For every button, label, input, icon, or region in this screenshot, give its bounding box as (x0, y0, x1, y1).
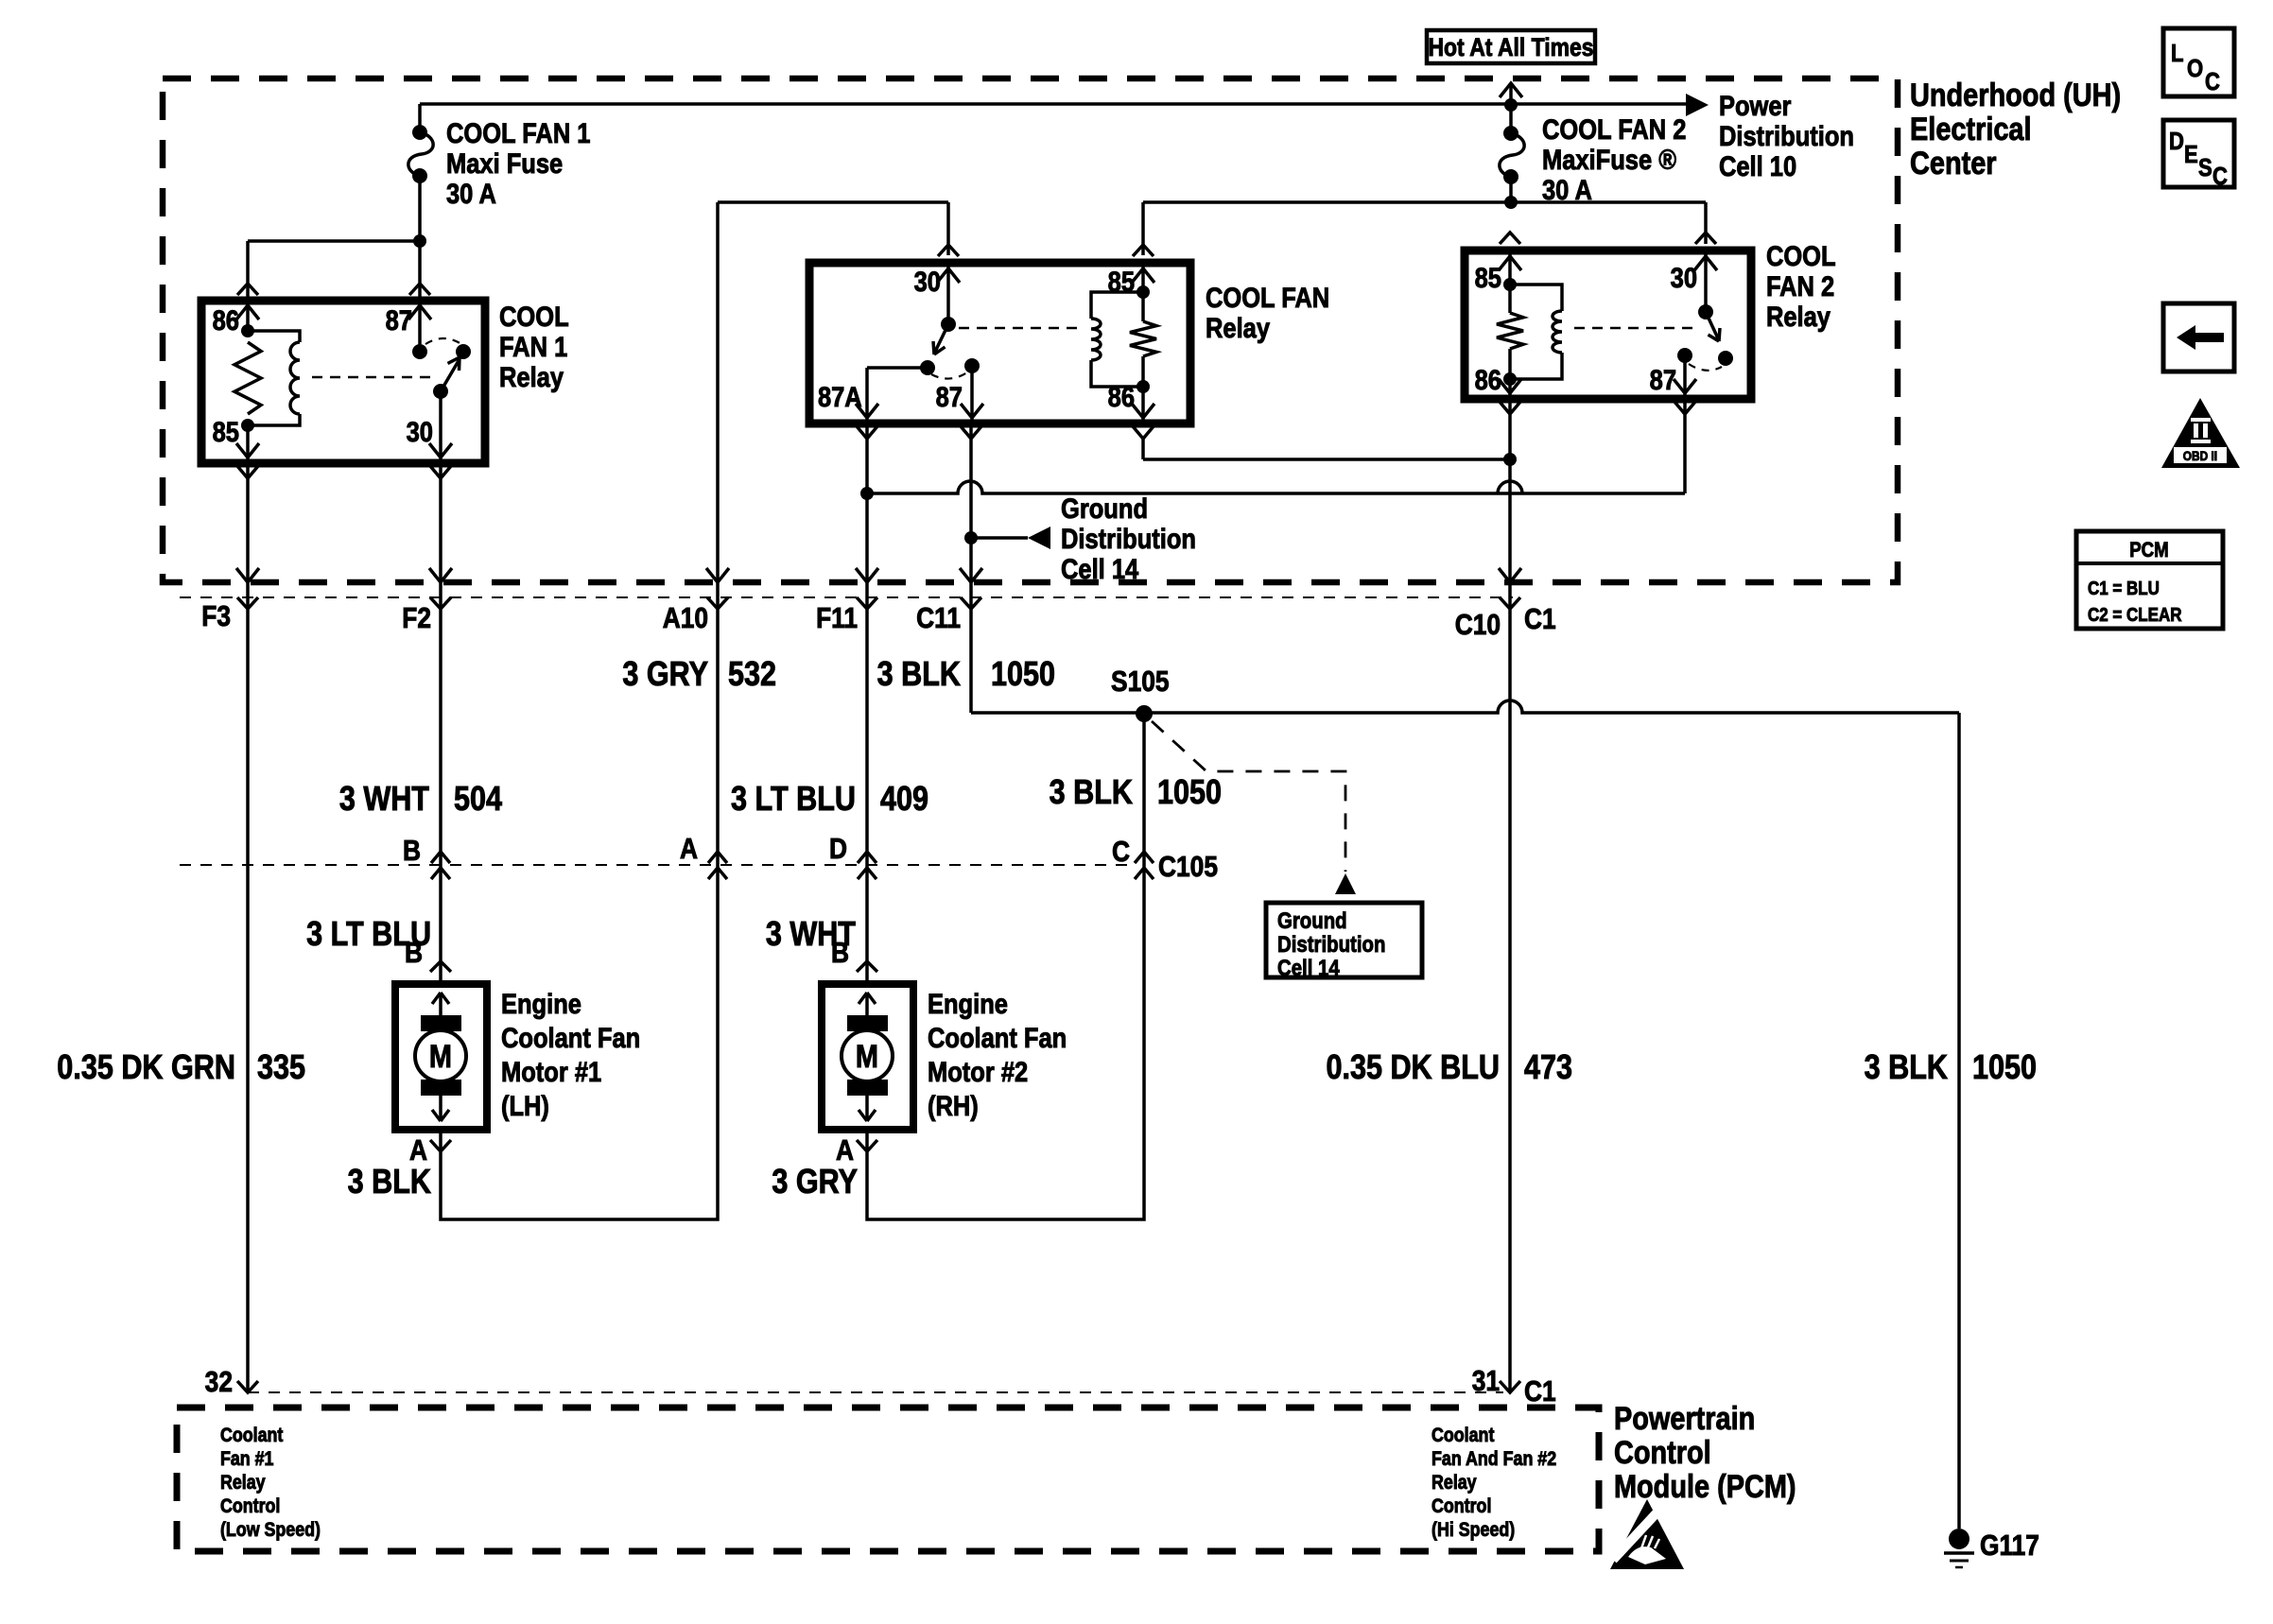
svg-text:Coolant Fan: Coolant Fan (501, 1022, 640, 1053)
svg-text:S105: S105 (1111, 665, 1170, 698)
svg-text:504: 504 (454, 781, 502, 819)
svg-text:(Hi Speed): (Hi Speed) (1431, 1519, 1515, 1542)
PCM pin 31 chevron (1500, 1381, 1520, 1392)
PCM C1 label bottom (1524, 1375, 1556, 1408)
arrow exit UH box at F3 (236, 568, 259, 582)
svg-text:Module (PCM): Module (PCM) (1614, 1468, 1796, 1505)
relay1 pin 87 stationary contact (412, 301, 427, 359)
ESD sensitive device symbol (1610, 1499, 1684, 1569)
connector pin F3 label (201, 600, 231, 632)
relay2m pin direction arrows (856, 268, 1154, 418)
svg-text:3 LT BLU: 3 LT BLU (731, 781, 856, 819)
PCM pin 32 chevron (237, 1381, 258, 1392)
wire - relay2m 87A wire down to F11 (865, 423, 869, 582)
svg-text:A10: A10 (663, 602, 708, 634)
relay3 pin 87 exit chevron (1674, 402, 1695, 414)
motor M1 pin A chevron and label (409, 1130, 451, 1167)
svg-text:Center: Center (1910, 145, 1997, 181)
svg-text:D: D (2169, 128, 2184, 155)
svg-text:COOL: COOL (499, 301, 569, 332)
C105 pin A label (680, 833, 698, 865)
wire label 3 BLK below motor1 (348, 1164, 431, 1201)
relay1 pin 85 direction arrow (236, 443, 259, 458)
junction node fuse1 output (413, 234, 426, 248)
svg-text:Relay: Relay (1766, 301, 1831, 332)
motor M2 pin A chevron and label (836, 1130, 877, 1167)
relay1 pin 85 label (213, 416, 239, 447)
svg-text:Coolant: Coolant (1431, 1425, 1495, 1447)
svg-text:Ground: Ground (1061, 492, 1148, 524)
svg-text:Distribution: Distribution (1719, 120, 1854, 151)
relay3 pin 85 entry chevron (1500, 233, 1520, 244)
relay1 pin 87 label (386, 304, 412, 336)
svg-text:COOL FAN 1: COOL FAN 1 (446, 117, 590, 148)
svg-text:Control: Control (1614, 1434, 1711, 1471)
wire - relay3 pin87 across to relay2m pin87A node with hops (867, 399, 1685, 493)
relay3 pin direction arrows (1499, 256, 1717, 393)
fuse - COOL FAN 1 Maxi Fuse 30 A (408, 125, 433, 183)
wire - A10 wire down and across to motor1 return (441, 202, 718, 1219)
junction node on C10 wire at pin86 feed (1503, 453, 1517, 466)
wire - relay middle pin86 to C10 node (1143, 439, 1510, 459)
svg-text:Cell 14: Cell 14 (1277, 955, 1340, 980)
wire - relay1 pin30 to switch arm (439, 391, 442, 463)
svg-text:Engine: Engine (501, 988, 581, 1019)
wire label 0.35 DK GRN 335 (57, 1049, 305, 1087)
arrow exit UH box at F2 (429, 568, 452, 582)
COOL FAN Relay label (1206, 282, 1329, 343)
relay K3 - COOL FAN 2 Relay box (1465, 251, 1751, 399)
relay3 pin 30 wire and pivot (1698, 251, 1713, 320)
svg-text:F2: F2 (402, 602, 431, 634)
connector pin F11 label (816, 602, 858, 634)
svg-text:32: 32 (205, 1366, 233, 1398)
svg-text:3 BLK: 3 BLK (348, 1164, 431, 1201)
Power Distribution Cell 10 label (1719, 90, 1854, 181)
svg-text:86: 86 (1475, 364, 1501, 395)
svg-text:B: B (403, 835, 421, 867)
svg-text:30 A: 30 A (446, 178, 496, 209)
svg-text:3 BLK: 3 BLK (1865, 1049, 1948, 1087)
wire - right 3 BLK 1050 drop to G117 (1957, 713, 1961, 1529)
connector chevron C11 (961, 597, 981, 609)
svg-text:Control: Control (220, 1495, 280, 1518)
svg-text:0.35 DK BLU: 0.35 DK BLU (1326, 1049, 1500, 1087)
relay3 pin 30 label (1671, 262, 1697, 293)
relay1 pin 85 exit chevron (237, 466, 258, 478)
svg-text:L: L (2171, 40, 2183, 67)
svg-text:Electrical: Electrical (1910, 111, 2032, 147)
relay3 switch arm with arrowhead (1706, 312, 1720, 341)
C105 pin B label (403, 835, 421, 867)
svg-text:473: 473 (1524, 1049, 1572, 1087)
wire - main B+ feed bus from COOL FAN 1 fuse node to Power Distribution (420, 104, 1690, 132)
resistor - relay3 suppression resistor (1497, 285, 1523, 379)
relay K1 - COOL FAN 1 Relay box (201, 301, 485, 463)
relay3 pin 86 label (1475, 364, 1501, 395)
svg-text:C11: C11 (916, 602, 961, 634)
wire - F11 wire down to motor2 (865, 582, 869, 967)
svg-text:C10: C10 (1455, 609, 1501, 641)
svg-text:PCM: PCM (2129, 540, 2169, 562)
relay1 pin 30 exit chevron (430, 466, 451, 478)
svg-text:409: 409 (880, 781, 928, 819)
COOL FAN 2 Relay label (1766, 240, 1836, 332)
svg-text:COOL FAN 2: COOL FAN 2 (1542, 113, 1686, 145)
wire - F3 wire relay1 pin85 down to PCM pin 32 (246, 463, 250, 1392)
svg-text:Distribution: Distribution (1061, 523, 1196, 554)
relay2m coil top node (1136, 263, 1150, 299)
Engine Coolant Fan Motor #2 label (928, 988, 1067, 1121)
ground distribution reference arrow at C11 wire (964, 527, 1050, 549)
svg-text:335: 335 (257, 1049, 305, 1087)
svg-text:B: B (831, 937, 849, 969)
wire - junction to relay1 pin 86 branch (248, 241, 420, 301)
svg-text:A: A (409, 1134, 427, 1166)
svg-text:C: C (1112, 836, 1130, 868)
ground G117 symbol (1944, 1529, 1974, 1567)
wire - relay2m 87 wire down to C11 (969, 423, 973, 582)
relay2m switch arm with arrowhead (933, 324, 948, 354)
svg-text:1050: 1050 (1972, 1049, 2037, 1087)
resistor - relay1 coil suppression resistor (234, 342, 261, 414)
connector chevron F3 (237, 597, 258, 609)
junction node S105 splice (1136, 705, 1153, 722)
junction node on B+ bus at COOL FAN 2 fuse (1504, 98, 1518, 112)
svg-text:C1: C1 (1524, 1375, 1556, 1408)
svg-text:0.35 DK GRN: 0.35 DK GRN (57, 1049, 235, 1087)
svg-text:87A: 87A (818, 381, 862, 412)
relay2m pin 30 label (914, 266, 941, 297)
PCM pin 31 label (1472, 1365, 1500, 1397)
relay2m pin 30 wire and pivot (941, 263, 956, 332)
svg-text:1050: 1050 (991, 656, 1055, 694)
relay3 pin 87 label (1650, 364, 1676, 395)
svg-text:1050: 1050 (1157, 774, 1222, 812)
relay3 open contact (1718, 351, 1733, 366)
svg-text:F3: F3 (201, 600, 231, 632)
wire - F2 wire relay1 pin30 down to motor1 (439, 463, 442, 967)
svg-text:Powertrain: Powertrain (1614, 1400, 1755, 1437)
svg-text:3 GRY: 3 GRY (772, 1164, 858, 1201)
svg-text:(Low Speed): (Low Speed) (220, 1519, 321, 1542)
C105 pin C double chevron (1135, 852, 1154, 879)
svg-text:30: 30 (1671, 262, 1697, 293)
relay1 actuation dashed link (312, 376, 435, 379)
svg-text:A: A (836, 1134, 854, 1166)
wire - fuse 2 output to bus at y214 (1509, 176, 1513, 202)
svg-text:E: E (2184, 141, 2198, 168)
Hot At All Times power label box (1427, 30, 1595, 63)
svg-text:Maxi Fuse: Maxi Fuse (446, 147, 563, 179)
svg-text:3 WHT: 3 WHT (339, 781, 430, 819)
wire - fuse 1 output to relay 1 junction (418, 176, 422, 241)
svg-text:FAN 2: FAN 2 (1766, 270, 1834, 302)
G117 label (1980, 1529, 2039, 1562)
wire label 3 GRY below motor2 (772, 1164, 858, 1201)
svg-text:Distribution: Distribution (1277, 931, 1385, 957)
wire label 3 BLK 1050 at S105 (1050, 774, 1222, 812)
svg-text:Power: Power (1719, 90, 1792, 121)
relay1 pin 87 direction arrow (408, 305, 431, 320)
COOL FAN 2 MaxiFuse label (1542, 113, 1686, 205)
relay2m pin 87A label (818, 381, 862, 412)
relay1 pin 86 direction arrow (236, 305, 259, 320)
svg-text:Fan #1: Fan #1 (220, 1448, 274, 1471)
relay3 coil bottom node (1503, 372, 1517, 399)
svg-text:3 BLK: 3 BLK (877, 656, 961, 694)
svg-text:87: 87 (936, 381, 963, 412)
COOL FAN 1 Maxi Fuse label (446, 117, 590, 209)
relay2m pin 85 entry chevron (1133, 245, 1154, 256)
Underhood (UH) Electrical Center dashed boundary box (163, 78, 1898, 582)
relay1 pin 30 direction arrow (429, 443, 452, 458)
relay2m pin 85 label (1108, 266, 1135, 297)
relay2m pin 87 exit chevron (961, 426, 981, 439)
relay1 pin 86 label (213, 304, 239, 336)
svg-text:Relay: Relay (499, 361, 564, 392)
svg-text:Relay: Relay (1206, 312, 1270, 343)
junction node relay pin87A wire (860, 487, 874, 500)
svg-text:85: 85 (1475, 262, 1501, 293)
LOC reference icon box (2163, 28, 2234, 96)
C105 pin A double chevron (708, 852, 727, 879)
svg-text:Motor #2: Motor #2 (928, 1056, 1028, 1087)
wire label 3 LT BLU 409 (731, 781, 928, 819)
arrow to Power Distribution Cell 10 (1686, 94, 1709, 116)
arrow exit UH box at A10 (706, 568, 729, 582)
svg-text:B: B (405, 937, 423, 969)
relay3 pin 30 entry chevron (1695, 233, 1716, 244)
relay1 coil top node (241, 301, 254, 337)
svg-text:Coolant Fan: Coolant Fan (928, 1022, 1067, 1053)
svg-text:FAN 1: FAN 1 (499, 331, 567, 362)
C105 pin D double chevron (858, 852, 876, 879)
arrow exit UH box at C10 (1499, 568, 1521, 582)
svg-text:Relay: Relay (1431, 1472, 1477, 1494)
Powertrain Control Module (PCM) label (1614, 1400, 1796, 1505)
relay3 contact travel dashed arc (1689, 364, 1722, 371)
inductor - relay1 coil winding loop (248, 331, 300, 425)
relay2m pin 86 exit chevron (1133, 426, 1154, 439)
svg-text:30: 30 (407, 416, 433, 447)
relay2m pin 87A contact and wire (867, 360, 935, 423)
wire label 3 LT BLU below C105 (306, 916, 431, 954)
relay3 coil top node (1503, 251, 1517, 291)
wire label 3 WHT 504 (339, 781, 503, 819)
fuse - COOL FAN 2 MaxiFuse 30 A (1500, 105, 1524, 184)
relay1 open contact (456, 344, 471, 359)
svg-text:C105: C105 (1158, 851, 1218, 883)
Ground Distribution Cell 14 reference box (1266, 903, 1422, 980)
connector chevron A10 (707, 597, 728, 609)
relay2m contact travel dashed arc (931, 372, 967, 379)
relay3 actuation dashed link (1574, 327, 1696, 330)
svg-text:Hot At All Times: Hot At All Times (1428, 33, 1593, 61)
inductor - relay middle coil winding (1091, 292, 1143, 387)
svg-text:C2 = CLEAR: C2 = CLEAR (2088, 604, 2182, 626)
svg-text:A: A (680, 833, 698, 865)
arrow exit UH box at C11 (960, 568, 982, 582)
DESC reference icon box (2163, 120, 2234, 190)
connector chevron F11 (857, 597, 877, 609)
connector chevron F2 (430, 597, 451, 609)
svg-text:Underhood (UH): Underhood (UH) (1910, 77, 2121, 113)
C105 connector label (1158, 851, 1218, 883)
relay2m coil bottom node (1136, 380, 1150, 423)
wire label 3 BLK 1050 right (1865, 1049, 2037, 1087)
wire - C11 wire down to S105 corner (969, 582, 973, 713)
relay3 pin 85 label (1475, 262, 1501, 293)
relay1 pin 30 label (407, 416, 433, 447)
svg-text:Coolant: Coolant (220, 1425, 284, 1447)
wire label 3 BLK 1050 at C11 (877, 656, 1055, 694)
svg-text:(RH): (RH) (928, 1090, 979, 1121)
OBD II triangle icon (2161, 398, 2240, 468)
svg-text:M: M (429, 1038, 452, 1075)
svg-text:Ground: Ground (1277, 907, 1347, 933)
PCM connector row dashed line (248, 1391, 1503, 1393)
relay2m pin 30 entry chevron (938, 245, 959, 256)
wire - junction down to relay1 pin 87 (418, 241, 422, 301)
relay2m actuation dashed link (959, 327, 1083, 330)
svg-text:85: 85 (213, 416, 239, 447)
svg-text:F11: F11 (816, 602, 858, 634)
connector chevron C10 (1500, 597, 1520, 609)
C105 pin B double chevron (431, 852, 450, 879)
svg-text:COOL: COOL (1766, 240, 1836, 271)
motor M1 pin B chevron and label (405, 937, 451, 984)
S105 label (1111, 665, 1170, 698)
Engine Coolant Fan Motor #1 label (501, 988, 640, 1121)
svg-text:Cell 14: Cell 14 (1061, 553, 1139, 584)
back arrow icon box (2163, 303, 2234, 371)
connector pin C10 label (1455, 609, 1501, 641)
svg-text:Motor #1: Motor #1 (501, 1056, 601, 1087)
Coolant Fan And Fan #2 Relay Control label (1431, 1425, 1556, 1542)
arrow from fuse B+ node to Hot At All Times (1500, 83, 1522, 105)
svg-text:C1 = BLU: C1 = BLU (2088, 578, 2160, 599)
connector C1 label top (1524, 603, 1556, 635)
svg-text:D: D (829, 833, 847, 865)
relay2m pin 86 label (1108, 381, 1135, 412)
wire - COOL FAN relay pin 85 feed bus to COOL FAN 2 relay pin 30 (1143, 202, 1706, 255)
inductor - relay3 coil winding (1510, 285, 1562, 379)
svg-text:87: 87 (386, 304, 412, 336)
svg-text:3 BLK: 3 BLK (1050, 774, 1133, 812)
relay1 pin 87 entry chevron (409, 284, 430, 295)
Ground Distribution Cell 14 upper label (1061, 492, 1196, 584)
svg-text:Control: Control (1431, 1495, 1491, 1518)
svg-text:Relay: Relay (220, 1472, 266, 1494)
wire label 3 GRY 532 (622, 656, 776, 694)
relay2m pin 87 label (936, 381, 963, 412)
Coolant Fan #1 Relay Control label (220, 1425, 321, 1542)
svg-text:COOL FAN: COOL FAN (1206, 282, 1329, 313)
svg-text:31: 31 (1472, 1365, 1500, 1397)
connector pin F2 label (402, 602, 431, 634)
Powertrain Control Module dashed box (177, 1408, 1599, 1551)
relay3 pin 86 exit chevron (1500, 402, 1520, 414)
relay1 contact travel dashed arc (425, 338, 461, 344)
PCM pin 32 label (205, 1366, 233, 1398)
C105 pin D label (829, 833, 847, 865)
relay2m pin 87A exit chevron (857, 426, 877, 439)
svg-text:86: 86 (213, 304, 239, 336)
relay1 coil bottom node (241, 419, 254, 463)
svg-text:87: 87 (1650, 364, 1676, 395)
relay2m pin 87 contact (964, 358, 980, 423)
svg-text:Fan And Fan #2: Fan And Fan #2 (1431, 1448, 1556, 1471)
svg-text:532: 532 (728, 656, 776, 694)
svg-text:OBD II: OBD II (2183, 448, 2217, 463)
wire - S105 down through C105 to motor2 return (867, 714, 1144, 1219)
relay1 pin 86 entry chevron (237, 284, 258, 295)
COOL FAN 1 Relay label (499, 301, 569, 392)
svg-text:O: O (2187, 55, 2203, 82)
svg-text:S: S (2198, 154, 2212, 181)
relay1 switch arm with arrowhead (433, 357, 460, 399)
svg-text:Engine: Engine (928, 988, 1008, 1019)
svg-text:3 GRY: 3 GRY (622, 656, 708, 694)
Underhood (UH) Electrical Center label (1910, 77, 2121, 181)
svg-text:MaxiFuse ®: MaxiFuse ® (1542, 144, 1676, 175)
svg-text:C: C (2212, 163, 2228, 190)
PCM connector legend box (2076, 531, 2223, 629)
svg-text:G117: G117 (1980, 1529, 2039, 1562)
svg-text:(LH): (LH) (501, 1090, 549, 1121)
junction node fuse2 output on relay feed bus (1504, 196, 1518, 209)
connector pin C11 label (916, 602, 961, 634)
svg-text:M: M (856, 1038, 878, 1075)
motor M2 - Engine Coolant Fan Motor #2 (RH) (822, 984, 913, 1130)
motor M1 - Engine Coolant Fan Motor #1 (LH) (395, 984, 487, 1130)
svg-text:C1: C1 (1524, 603, 1556, 635)
C105 pin C label (1112, 836, 1130, 868)
wire - A10 riser feeding COOL FAN relay pin 30 (718, 202, 948, 255)
wire label 3 WHT below C105 (766, 916, 857, 954)
C105 connector dashed line (180, 864, 1135, 866)
wire label 0.35 DK BLU 473 (1326, 1049, 1572, 1087)
motor M2 pin B chevron and label (831, 937, 877, 984)
relay K2 - COOL FAN Relay box (809, 263, 1190, 423)
wire - C10 wire relay3 pin86 down to PCM pin 31 (1508, 399, 1512, 1392)
connector pin A10 label (663, 602, 708, 634)
dashed reference from S105 to Ground Distribution Cell 14 (1152, 721, 1356, 894)
wire - S105 bus across to right drop with hop over C10 (971, 700, 1959, 713)
relay3 pin 87 contact (1677, 348, 1692, 399)
resistor - relay middle suppression resistor (1130, 292, 1156, 387)
UH connector row dashed line (180, 596, 1513, 598)
arrow exit UH box at F11 (856, 568, 878, 582)
svg-text:Cell 10: Cell 10 (1719, 150, 1796, 181)
svg-text:C: C (2205, 68, 2220, 95)
